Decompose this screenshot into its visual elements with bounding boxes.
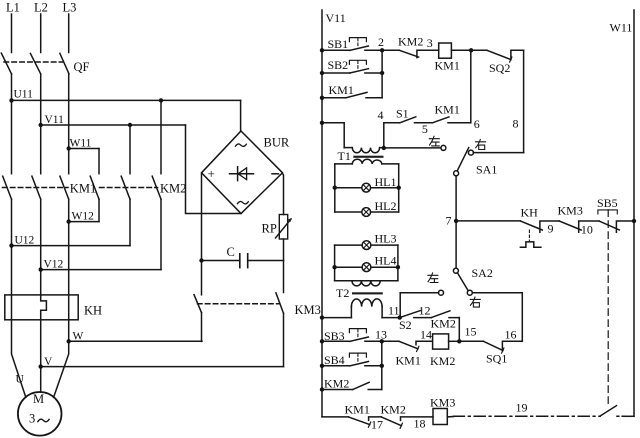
wire pole2 to V11 bbox=[40, 74, 42, 125]
lamp ladder T1 left rail bbox=[334, 164, 336, 212]
node U12 junction dot bbox=[9, 243, 13, 247]
node 13 junction dot bbox=[380, 339, 384, 343]
limit switch SQ2 fixed step bbox=[511, 50, 524, 58]
selector SA1 blade bbox=[457, 148, 469, 171]
junction dot U11 / KM2 pole6 tap bbox=[159, 98, 163, 102]
contactor KM2 pole5 blade bbox=[121, 176, 130, 199]
wire node13 branch vertical bbox=[381, 341, 383, 389]
junction dot HL4 left bbox=[332, 265, 336, 269]
wire U12 link bbox=[12, 245, 131, 247]
bridge AC tilde bottom bbox=[237, 201, 248, 203]
wire V11 bus bbox=[41, 124, 186, 126]
selector SA2 right glyph you bbox=[470, 297, 480, 307]
contactor KM2 pole4 blade bbox=[90, 176, 99, 199]
lamp ladder T2 right rail bbox=[397, 245, 399, 281]
svg-text:KM2: KM2 bbox=[431, 317, 456, 331]
svg-text:SB2: SB2 bbox=[328, 58, 349, 72]
contactor KM1 pole3 blade bbox=[60, 176, 69, 199]
bridge AC tilde top bbox=[235, 144, 246, 146]
junction dot row SB4 bbox=[320, 364, 324, 368]
svg-text:10: 10 bbox=[581, 222, 593, 236]
lamp HL2 cross bbox=[363, 209, 369, 215]
node 7 junction dot bbox=[454, 219, 458, 223]
contact KM2 self-hold NO blade bbox=[353, 382, 382, 389]
contact KM2 NC blade bbox=[399, 50, 438, 57]
svg-text:W11: W11 bbox=[610, 20, 633, 34]
svg-text:3: 3 bbox=[427, 36, 433, 50]
wire node4 corner bbox=[384, 123, 400, 148]
svg-text:S1: S1 bbox=[396, 107, 409, 121]
wire node13 to KM1 contact bbox=[382, 340, 399, 342]
contact KM3 NC blade bbox=[559, 221, 599, 232]
switch S2 NO blade bbox=[400, 311, 432, 318]
wire coil KM1 to junction bbox=[451, 49, 471, 51]
svg-text:SB3: SB3 bbox=[324, 329, 345, 343]
svg-text:7: 7 bbox=[446, 213, 452, 227]
svg-text:19: 19 bbox=[516, 400, 528, 414]
svg-text:KM1: KM1 bbox=[435, 102, 460, 116]
node W12 junction dot bbox=[67, 219, 71, 223]
wire pole6 down bbox=[160, 199, 162, 269]
contact KM2 row11 NO blade bbox=[431, 311, 459, 318]
breaker QF linkage dashed bbox=[4, 61, 63, 63]
pushbutton SB4 actuator bbox=[349, 353, 366, 357]
svg-text:KM2: KM2 bbox=[381, 403, 406, 417]
pushbutton SB4 NC contact bbox=[350, 362, 382, 366]
svg-text:SQ1: SQ1 bbox=[486, 351, 507, 365]
junction dot row SB2 bbox=[320, 71, 324, 75]
selector SA2 common circle bbox=[453, 268, 458, 273]
junction dot row T1 bbox=[320, 121, 324, 125]
pushbutton SB5 linkage long dashed bbox=[607, 210, 609, 405]
wire V11 down to KM1 pole2 bbox=[40, 125, 42, 174]
pushbutton SB3 NC contact bbox=[350, 337, 382, 341]
svg-text:S2: S2 bbox=[399, 318, 412, 332]
wire L1 drop bbox=[11, 14, 13, 53]
junction dot V11 / KM2 pole5 tap bbox=[128, 123, 132, 127]
wire to SB2 bbox=[322, 72, 350, 74]
svg-text:KM1: KM1 bbox=[329, 83, 354, 97]
selector SA2 left throw circle bbox=[439, 290, 444, 295]
lamp HL3 cross bbox=[363, 242, 369, 248]
junction dot W11 rail row bbox=[632, 219, 636, 223]
svg-text:V11: V11 bbox=[45, 114, 65, 126]
wire W11 to KM2 pole4 bbox=[69, 148, 99, 150]
svg-text:L1: L1 bbox=[6, 0, 20, 14]
svg-text:W12: W12 bbox=[72, 211, 95, 223]
pushbutton SB5 NC contact bbox=[599, 221, 634, 232]
lamp HL1 circle bbox=[362, 183, 371, 192]
wire KH to motor U bbox=[12, 320, 26, 398]
svg-text:HL4: HL4 bbox=[375, 254, 397, 268]
relay KH reset symbol bbox=[520, 242, 541, 247]
contact KM1 bottom blade tick bbox=[368, 422, 370, 427]
contactor KM3 braking left contact blade bbox=[194, 295, 202, 313]
wire pole1 to U12 and KH bbox=[11, 199, 13, 295]
contactor KM1 pole1 blade bbox=[3, 176, 12, 199]
contactor KM3 braking right contact bottom bbox=[283, 313, 285, 366]
coil KM3 box bbox=[433, 409, 447, 425]
pushbutton SB1 actuator bbox=[349, 38, 366, 42]
svg-text:14: 14 bbox=[420, 327, 432, 341]
svg-text:KM3: KM3 bbox=[430, 395, 455, 409]
svg-text:SB1: SB1 bbox=[328, 37, 349, 51]
contact KM1 row13 blade tick bbox=[417, 346, 419, 351]
svg-text:4: 4 bbox=[378, 108, 384, 122]
lamp ladder T2 left rail bbox=[334, 245, 336, 281]
svg-text:3: 3 bbox=[29, 412, 35, 426]
breaker QF pole 3 blade bbox=[60, 53, 69, 74]
wire SA1 right throw to node8 bbox=[473, 152, 523, 154]
svg-text:U: U bbox=[16, 374, 25, 386]
junction dot row T2 bbox=[320, 315, 324, 319]
svg-text:KM2: KM2 bbox=[398, 35, 423, 49]
svg-text:KM3: KM3 bbox=[295, 303, 321, 317]
transformer T1 primary winding bbox=[352, 148, 379, 153]
svg-text:C: C bbox=[227, 245, 235, 259]
wire U11 bus bbox=[12, 99, 241, 101]
wire coil KM2 to node 15 bbox=[449, 340, 460, 342]
wire pole1 to U11 bbox=[11, 74, 13, 101]
wire pole3 to W12 and KH bbox=[68, 199, 70, 295]
svg-text:U11: U11 bbox=[14, 89, 34, 101]
svg-text:L3: L3 bbox=[63, 0, 77, 14]
wire pole2 to V12 and KH bbox=[40, 199, 42, 295]
lamp HL4 cross bbox=[363, 264, 369, 270]
wire node 6 vertical bbox=[470, 50, 472, 123]
lamp HL1 leads bbox=[335, 187, 399, 189]
contact KM2 bottom blade tick bbox=[400, 423, 402, 428]
svg-text:T1: T1 bbox=[338, 149, 351, 163]
svg-text:12: 12 bbox=[419, 303, 431, 317]
lamp HL2 circle bbox=[362, 208, 371, 217]
svg-text:KM1: KM1 bbox=[70, 182, 96, 196]
svg-text:KM2: KM2 bbox=[430, 354, 455, 368]
svg-text:KM2: KM2 bbox=[324, 377, 349, 391]
bridge minus terminal mark bbox=[272, 173, 279, 175]
contactor KM3 braking right contact blade bbox=[276, 293, 284, 314]
junction dot row SB1 bbox=[320, 48, 324, 52]
svg-text:KH: KH bbox=[521, 205, 539, 219]
svg-text:18: 18 bbox=[414, 416, 426, 430]
svg-text:QF: QF bbox=[74, 60, 90, 74]
wire RP down to KM3 right contact bbox=[283, 239, 285, 293]
transformer T2 primary winding bbox=[351, 299, 382, 307]
wire V to KM3 right contact bbox=[41, 366, 284, 368]
wire coil KM3 out bbox=[447, 416, 453, 418]
node U11 junction dot bbox=[9, 98, 13, 102]
junction dot KM1 coil output bbox=[469, 48, 473, 52]
wire SA1 common down to node 7 bbox=[455, 176, 457, 268]
wire bridge minus down to RP bbox=[283, 174, 284, 215]
junction dot SB2 node2 branch bbox=[380, 71, 384, 75]
bridge diode lead bbox=[230, 173, 254, 175]
lamp HL1 cross bbox=[363, 185, 369, 191]
bridge diode triangle bbox=[238, 168, 247, 180]
node W11 junction dot bbox=[67, 146, 71, 150]
transformer T2 secondary top lead bbox=[335, 280, 398, 282]
wire down to KM2 pole6 bbox=[160, 100, 162, 173]
node 11 junction dot bbox=[398, 315, 402, 319]
transformer T2 primary stubs bbox=[351, 307, 382, 318]
wire node 8 vertical bbox=[523, 50, 525, 152]
node V junction dot bbox=[39, 364, 43, 368]
contact KM1 row13 NO blade bbox=[399, 341, 432, 349]
wire W12 link bbox=[69, 221, 99, 223]
rheostat RP arrow bbox=[276, 219, 292, 238]
selector SA1 common circle bbox=[454, 171, 459, 176]
pushbutton SB1 NC contact bbox=[350, 46, 382, 50]
svg-text:RP: RP bbox=[262, 221, 277, 235]
wire SA2 right throw to node 16 bbox=[472, 293, 522, 342]
pushbutton SB2 NC contact bbox=[350, 69, 382, 73]
svg-text:HL1: HL1 bbox=[375, 175, 397, 189]
wire KH to motor V bbox=[40, 320, 42, 392]
thermal relay KH box bbox=[5, 295, 78, 320]
wire L3 drop bbox=[68, 14, 70, 53]
selector SA2 left glyph zuo bbox=[428, 273, 438, 283]
wire V11 to T1 primary left bbox=[322, 123, 344, 148]
lamp ladder T1 right rail bbox=[398, 164, 400, 212]
relay KH linkage dashed bbox=[528, 230, 530, 241]
wire node 15 vertical bbox=[458, 318, 460, 342]
pushbutton SB5 actuator bbox=[598, 210, 617, 214]
wire pole4 down bbox=[98, 199, 100, 221]
wire V11 to bridge AC bottom bbox=[186, 125, 242, 214]
wire to KM1 aux bbox=[322, 97, 346, 99]
svg-text:U12: U12 bbox=[15, 234, 35, 246]
bridge diode cathode bar bbox=[237, 167, 239, 181]
transformer T1 core bbox=[353, 156, 383, 158]
limit switch SQ1 fixed step bbox=[502, 341, 522, 349]
svg-text:15: 15 bbox=[465, 324, 477, 338]
svg-text:L2: L2 bbox=[34, 0, 48, 14]
switch blade at W11 bottom bbox=[601, 406, 617, 416]
wire bottom row from V11 bbox=[322, 416, 348, 418]
junction dot SB4 node13 branch bbox=[380, 364, 384, 368]
wire U11 bus corner down to bridge AC top bbox=[240, 100, 242, 131]
wire V11 to T2 primary bbox=[322, 317, 351, 319]
wire to SB4 bbox=[322, 365, 350, 367]
selector SA1 right glyph you bbox=[476, 140, 486, 150]
wire KH to motor W bbox=[54, 320, 69, 398]
wire node15 to SQ1 bbox=[459, 340, 483, 342]
node C junction dot bbox=[199, 258, 203, 262]
switch S1 NO blade bbox=[400, 117, 433, 123]
contactor KM3 braking left contact bottom bbox=[201, 313, 203, 342]
wire bridge plus down bbox=[201, 174, 203, 295]
wire node7 to KH contact bbox=[456, 220, 520, 222]
wire junction to SQ2 bbox=[471, 49, 487, 51]
wire W11 rail bottom corner bbox=[624, 415, 634, 417]
svg-text:5: 5 bbox=[422, 122, 428, 136]
svg-text:13: 13 bbox=[375, 327, 387, 341]
node V12 junction dot bbox=[39, 267, 43, 271]
wire node2 to KM2 NC bbox=[382, 49, 399, 51]
contactor KM1 linkage dashed bbox=[3, 187, 69, 189]
lamp HL3 leads bbox=[335, 244, 398, 246]
rectifier bridge BUR diamond bbox=[202, 131, 283, 214]
svg-text:SB5: SB5 bbox=[597, 196, 618, 210]
wire node 19 dash-dot bbox=[453, 415, 600, 417]
rheostat RP arrowhead bbox=[288, 218, 292, 222]
svg-text:2: 2 bbox=[378, 35, 384, 49]
capacitor C left lead bbox=[202, 260, 240, 262]
wire down to KM2 pole4 bbox=[98, 149, 100, 174]
wire L2 drop bbox=[40, 14, 42, 53]
selector SA1 left glyph zuo bbox=[429, 136, 439, 146]
wire node2 branch vertical bbox=[381, 50, 383, 98]
breaker QF pole 2 blade bbox=[30, 53, 40, 74]
breaker QF pole 1 blade bbox=[1, 53, 11, 74]
junction dot row KM1 aux bbox=[320, 96, 324, 100]
wire down to KM2 pole5 bbox=[129, 125, 131, 174]
contact KM1 self-hold NO blade bbox=[346, 92, 382, 97]
svg-text:+: + bbox=[208, 166, 215, 181]
svg-text:8: 8 bbox=[513, 117, 519, 131]
transformer T1 primary lead right bbox=[380, 147, 384, 149]
transformer T1 secondary winding bbox=[352, 159, 382, 164]
junction dot HL1 right bbox=[397, 186, 401, 190]
node 2 junction dot bbox=[380, 48, 384, 52]
wire SA2 left throw to node 11 bbox=[400, 293, 438, 318]
limit switch SQ1 blade bbox=[483, 341, 503, 350]
junction dot HL4 right bbox=[396, 265, 400, 269]
svg-text:KM1: KM1 bbox=[435, 58, 460, 72]
limit switch SQ2 blade bbox=[487, 50, 511, 59]
svg-text:9: 9 bbox=[548, 221, 554, 235]
svg-text:KM1: KM1 bbox=[345, 403, 370, 417]
svg-text:V11: V11 bbox=[326, 11, 346, 25]
node W junction dot bbox=[67, 339, 71, 343]
transformer T2 secondary winding bbox=[352, 281, 380, 286]
svg-text:KM2: KM2 bbox=[160, 182, 186, 196]
transformer T2 core bbox=[352, 292, 383, 294]
node 15 junction dot bbox=[457, 339, 461, 343]
contact KM1 bottom NO blade bbox=[348, 417, 381, 425]
svg-text:T2: T2 bbox=[336, 286, 349, 300]
transformer T1 secondary leads bbox=[335, 163, 399, 165]
limit switch SQ2 blade tick bbox=[510, 57, 512, 62]
wire U11 down to KM1 pole1 bbox=[11, 100, 13, 173]
svg-text:HL3: HL3 bbox=[375, 231, 397, 245]
pushbutton SB3 actuator bbox=[349, 329, 366, 333]
svg-text:6: 6 bbox=[474, 117, 480, 131]
motor M circle bbox=[18, 392, 62, 436]
wire W to KM3 left contact bbox=[69, 340, 202, 342]
junction dot row SB3 bbox=[320, 339, 324, 343]
wire blade to W11 rail dash-dot bbox=[617, 415, 624, 417]
wire to KM2 aux bbox=[322, 389, 353, 391]
thermal relay KH heater element bbox=[41, 295, 47, 320]
contactor KM1 pole2 blade bbox=[32, 176, 41, 199]
lamp HL3 circle bbox=[362, 241, 371, 250]
transformer T1 primary lead bbox=[344, 147, 352, 149]
junction dot row KM2 aux bbox=[320, 387, 324, 391]
control rail V11 bbox=[321, 10, 323, 417]
coil KM2 box bbox=[433, 334, 449, 349]
control rail W11 bbox=[633, 10, 635, 416]
svg-text:SA1: SA1 bbox=[476, 163, 497, 177]
wire V12 link bbox=[41, 269, 161, 271]
contact KM1 row4 NO blade bbox=[432, 117, 470, 123]
capacitor C right lead bbox=[248, 260, 284, 262]
coil KM1 box bbox=[439, 43, 452, 58]
node 4 junction dot bbox=[382, 146, 386, 150]
contactor KM2 pole6 blade bbox=[152, 176, 161, 199]
contact KM2 bottom NO blade bbox=[381, 417, 433, 426]
contactor KM3 linkage dashed bbox=[198, 303, 280, 305]
wire phase U through KH bbox=[11, 295, 13, 320]
svg-text:KM1: KM1 bbox=[396, 353, 421, 367]
wire to SB1 bbox=[322, 49, 350, 51]
svg-text:HL2: HL2 bbox=[375, 199, 397, 213]
svg-text:11: 11 bbox=[388, 304, 400, 318]
svg-text:V12: V12 bbox=[44, 258, 64, 270]
limit switch SQ1 blade tick bbox=[502, 348, 504, 353]
selector SA1 left throw circle bbox=[441, 145, 446, 150]
selector SA1 right throw circle bbox=[468, 150, 473, 155]
pushbutton SB2 actuator bbox=[349, 60, 366, 64]
capacitor C right plate bbox=[247, 254, 249, 268]
wire phase W through KH bbox=[68, 295, 70, 320]
svg-text:KH: KH bbox=[84, 304, 102, 318]
lamp HL2 leads bbox=[335, 211, 399, 213]
rheostat RP body bbox=[279, 215, 287, 240]
svg-text:BUR: BUR bbox=[264, 136, 290, 150]
svg-text:SQ2: SQ2 bbox=[489, 61, 510, 75]
lamp HL4 leads bbox=[335, 266, 398, 268]
svg-text:M: M bbox=[33, 392, 44, 406]
contactor KM2 linkage dashed bbox=[100, 187, 158, 189]
node V11 junction dot bbox=[39, 123, 43, 127]
wire W11 down to KM1 pole3 bbox=[68, 149, 70, 174]
selector SA2 right throw circle bbox=[467, 290, 472, 295]
lamp HL4 circle bbox=[362, 263, 371, 272]
wire pole3 to W11 bbox=[68, 74, 70, 149]
svg-text:17: 17 bbox=[371, 417, 383, 431]
wire to SB3 bbox=[322, 340, 350, 342]
capacitor C left plate bbox=[239, 254, 241, 268]
relay contact KH NC blade bbox=[520, 221, 559, 232]
svg-text:SB4: SB4 bbox=[324, 353, 345, 367]
wire pole5 down bbox=[129, 199, 131, 245]
selector SA2 blade bbox=[457, 273, 468, 291]
wire node4 to SA1 left throw bbox=[384, 147, 441, 149]
junction dot HL1 left bbox=[333, 186, 337, 190]
svg-text:16: 16 bbox=[505, 327, 517, 341]
svg-text:SA2: SA2 bbox=[472, 266, 493, 280]
wire T2 primary to node 11 bbox=[382, 317, 400, 319]
svg-text:KM3: KM3 bbox=[558, 203, 583, 217]
